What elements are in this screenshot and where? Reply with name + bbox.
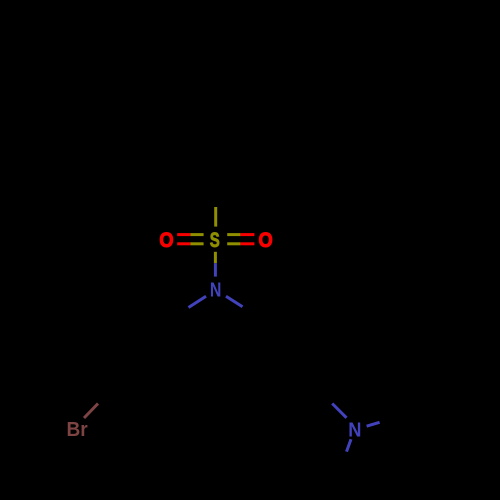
wire: S=O right double bond, upper line (S half olive / O half red) <box>227 233 254 236</box>
svg-text:Br: Br <box>67 419 88 441</box>
atom Br (bromine substituent) <box>67 419 88 441</box>
wire: N to methyl bond, right (N half, blue) <box>367 422 380 426</box>
wire: Br to ring carbon bond (Br half, brown) <box>84 404 98 419</box>
atom N (carbazole N9) <box>210 280 222 302</box>
svg-text:O: O <box>259 229 273 252</box>
wire: bond phenyl-C to S (S half, olive) <box>214 207 217 227</box>
wire: S=O left double bond, upper line (O half red / S half olive) <box>177 233 203 236</box>
wire: S-N bond (S half olive / N half blue) <box>214 252 217 277</box>
atom N (dimethylamino nitrogen) <box>348 419 361 442</box>
wire: S=O left double bond, lower line (O half red / S half olive) <box>177 242 203 245</box>
svg-text:N: N <box>348 419 361 442</box>
wire: S=O right double bond, lower line (S half olive / O half red) <box>227 242 254 245</box>
svg-text:N: N <box>210 280 222 302</box>
svg-text:O: O <box>159 229 173 252</box>
svg-text:S: S <box>210 229 220 252</box>
atom O (left sulfonyl oxygen) <box>159 229 173 252</box>
wire: N to methyl bond, down-left (N half, blue) <box>347 439 352 451</box>
wire: N9 to C9a bond, down-left (N half, blue) <box>189 296 207 307</box>
wire: aryl carbon to N bond, up-left (N half, blue) <box>332 404 346 418</box>
wire: N9 to C8a bond, down-right (N half, blue) <box>226 296 243 307</box>
atom O (right sulfonyl oxygen) <box>259 229 273 252</box>
atom S (sulfonyl sulfur) <box>210 229 220 252</box>
